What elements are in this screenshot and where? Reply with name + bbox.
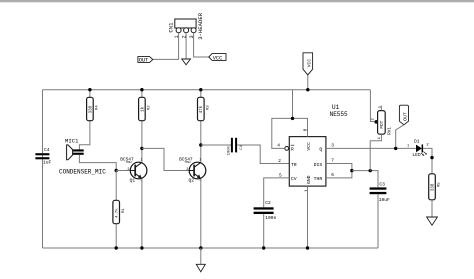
svg-text:7: 7 bbox=[331, 157, 334, 163]
capacitor C3 bbox=[370, 182, 390, 203]
svg-text:6: 6 bbox=[331, 172, 334, 178]
wire reset loop to VCC bbox=[272, 118, 308, 148]
label OUT (top) bbox=[138, 57, 153, 64]
svg-text:1: 1 bbox=[303, 189, 309, 192]
node ground rail R1 tap bbox=[115, 246, 118, 249]
node reset/vcc loop bbox=[291, 117, 294, 120]
wire CN1 pin1 to OUT bbox=[153, 33, 179, 60]
ground (bottom centre) bbox=[196, 264, 205, 272]
wire DIS/THR to C3 bbox=[352, 171, 378, 188]
svg-text:R1: R1 bbox=[122, 208, 126, 213]
connector CN1 bbox=[168, 12, 204, 39]
svg-text:THR: THR bbox=[314, 176, 323, 182]
node Q2 collector bbox=[199, 143, 202, 146]
capacitor C1 bbox=[228, 138, 244, 156]
svg-text:47k: 47k bbox=[199, 105, 204, 113]
svg-text:1: 1 bbox=[199, 158, 201, 162]
wire 555 GND pin1 bbox=[307, 186, 309, 248]
svg-text:1: 1 bbox=[378, 137, 382, 139]
wire Q2 collector to C1 bbox=[201, 144, 231, 146]
svg-text:OUT: OUT bbox=[139, 57, 149, 63]
svg-text:2: 2 bbox=[278, 158, 281, 164]
svg-text:R2: R2 bbox=[148, 105, 152, 110]
transistor Q1 bbox=[120, 157, 147, 184]
node pot bottom bbox=[369, 169, 372, 172]
svg-text:3: 3 bbox=[379, 106, 383, 108]
svg-text:3: 3 bbox=[331, 143, 334, 149]
svg-text:1: 1 bbox=[407, 144, 410, 148]
wire Q1 emitter to rail bbox=[141, 179, 143, 248]
svg-text:330: 330 bbox=[431, 183, 435, 191]
wire Q output bbox=[326, 147, 416, 149]
svg-text:DIS: DIS bbox=[314, 162, 323, 168]
svg-text:CV: CV bbox=[291, 176, 297, 182]
node DIS/THR bbox=[350, 169, 353, 172]
svg-text:R4: R4 bbox=[96, 105, 100, 110]
wire CV to C2 bbox=[264, 178, 290, 207]
svg-text:2: 2 bbox=[426, 144, 429, 148]
svg-text:1k: 1k bbox=[140, 106, 145, 112]
svg-text:TR: TR bbox=[291, 162, 297, 168]
svg-text:TO92: TO92 bbox=[184, 161, 191, 164]
capacitor C2 bbox=[254, 200, 277, 221]
node ground rail Q1 emitter tap bbox=[140, 246, 143, 249]
svg-text:330: 330 bbox=[89, 105, 93, 113]
wire LED to R5 bbox=[423, 148, 432, 174]
svg-text:R: R bbox=[291, 147, 294, 153]
wire CN1 pin3 to VCC bbox=[194, 33, 209, 57]
svg-text:GND: GND bbox=[306, 175, 312, 184]
svg-text:2: 2 bbox=[372, 118, 376, 120]
flag VCC (middle, above rail) bbox=[303, 53, 313, 90]
resistor R5 bbox=[429, 174, 442, 217]
svg-text:VCC: VCC bbox=[306, 142, 312, 151]
ground (under CN1) bbox=[182, 59, 191, 65]
svg-text:POT: POT bbox=[380, 120, 385, 128]
svg-text:VCC: VCC bbox=[213, 56, 223, 62]
capacitor C4 bbox=[35, 147, 51, 165]
svg-text:R3: R3 bbox=[207, 105, 211, 110]
LED D1 bbox=[407, 138, 429, 158]
resistor R3 bbox=[198, 90, 211, 163]
svg-text:OUT: OUT bbox=[403, 112, 409, 121]
resistor R4 bbox=[79, 90, 99, 150]
svg-text:R5: R5 bbox=[438, 182, 442, 187]
wire mic bottom lead bbox=[79, 155, 116, 171]
resistor R2 bbox=[139, 90, 152, 163]
microphone MIC1 bbox=[59, 137, 106, 175]
wire junction down to R1 bbox=[115, 171, 117, 201]
node rail R4 tap bbox=[88, 88, 91, 91]
resistor R1 bbox=[113, 200, 126, 248]
wire left vertical bbox=[42, 90, 44, 248]
wire DIS bbox=[326, 164, 352, 178]
svg-text:100n: 100n bbox=[265, 215, 276, 221]
node OUT/Q bbox=[394, 147, 397, 150]
wire junction to Q1 base bbox=[116, 170, 130, 172]
svg-text:RV1: RV1 bbox=[388, 127, 393, 135]
svg-text:NE555: NE555 bbox=[330, 111, 348, 118]
svg-text:U1: U1 bbox=[332, 104, 340, 111]
svg-text:CN1: CN1 bbox=[168, 22, 175, 33]
svg-text:4.7k: 4.7k bbox=[115, 208, 120, 218]
node ground rail C2 tap bbox=[262, 246, 265, 249]
wire C1 to TR bbox=[237, 145, 289, 164]
svg-text:C2: C2 bbox=[265, 200, 271, 206]
svg-text:D1: D1 bbox=[414, 138, 420, 144]
svg-text:CONDENSER_MIC: CONDENSER_MIC bbox=[59, 169, 106, 176]
node Q1 collector bbox=[140, 147, 143, 150]
svg-text:10uF: 10uF bbox=[379, 197, 390, 203]
svg-text:TO92: TO92 bbox=[125, 161, 132, 164]
flag VCC (top) bbox=[209, 54, 226, 62]
wire C3 to rail bbox=[377, 194, 379, 248]
svg-text:2: 2 bbox=[127, 168, 129, 172]
svg-text:VCC: VCC bbox=[307, 59, 313, 68]
wire Q1 collector to Q2 base bbox=[142, 148, 189, 170]
node rail VCC flag tap bbox=[306, 88, 309, 91]
svg-text:100n: 100n bbox=[228, 145, 232, 155]
node rail R2 tap bbox=[140, 88, 143, 91]
top toolbar edge bbox=[0, 0, 474, 2]
svg-text:LED: LED bbox=[412, 152, 421, 158]
node mic/base/R1 junction bbox=[115, 169, 118, 172]
wire CN1 pin2 to ground bbox=[185, 33, 187, 59]
svg-text:Q1: Q1 bbox=[130, 178, 136, 184]
wire rail drop to 555 bbox=[292, 90, 294, 119]
svg-text:Q2: Q2 bbox=[189, 178, 195, 184]
node at LED corner bbox=[430, 156, 433, 159]
svg-text:2: 2 bbox=[186, 168, 188, 172]
wire C2 to rail bbox=[263, 214, 265, 248]
potentiometer RV1 bbox=[370, 90, 392, 171]
node ground rail U1 pin1 tap bbox=[306, 246, 309, 249]
timer IC U1 NE555 bbox=[277, 104, 348, 192]
node ground rail Q2 emitter tap bbox=[199, 246, 202, 249]
svg-text:4: 4 bbox=[277, 142, 280, 148]
svg-text:3-HEADER: 3-HEADER bbox=[197, 12, 204, 39]
wire top VCC rail bbox=[43, 89, 371, 91]
ground (right) bbox=[427, 217, 438, 225]
transistor Q2 bbox=[179, 157, 206, 184]
svg-text:1: 1 bbox=[140, 158, 142, 162]
label OUT (right, vertical) bbox=[396, 105, 409, 148]
svg-text:MIC1: MIC1 bbox=[65, 137, 79, 144]
node rail R3 tap bbox=[199, 88, 202, 91]
wire bottom GND rail bbox=[43, 247, 379, 249]
wire Q2 emitter to rail bbox=[200, 179, 202, 248]
svg-text:1uF: 1uF bbox=[43, 159, 52, 165]
wire ground tap bbox=[200, 248, 202, 264]
svg-text:Q: Q bbox=[319, 147, 322, 153]
svg-text:C4: C4 bbox=[44, 147, 50, 153]
svg-text:C3: C3 bbox=[379, 182, 385, 188]
